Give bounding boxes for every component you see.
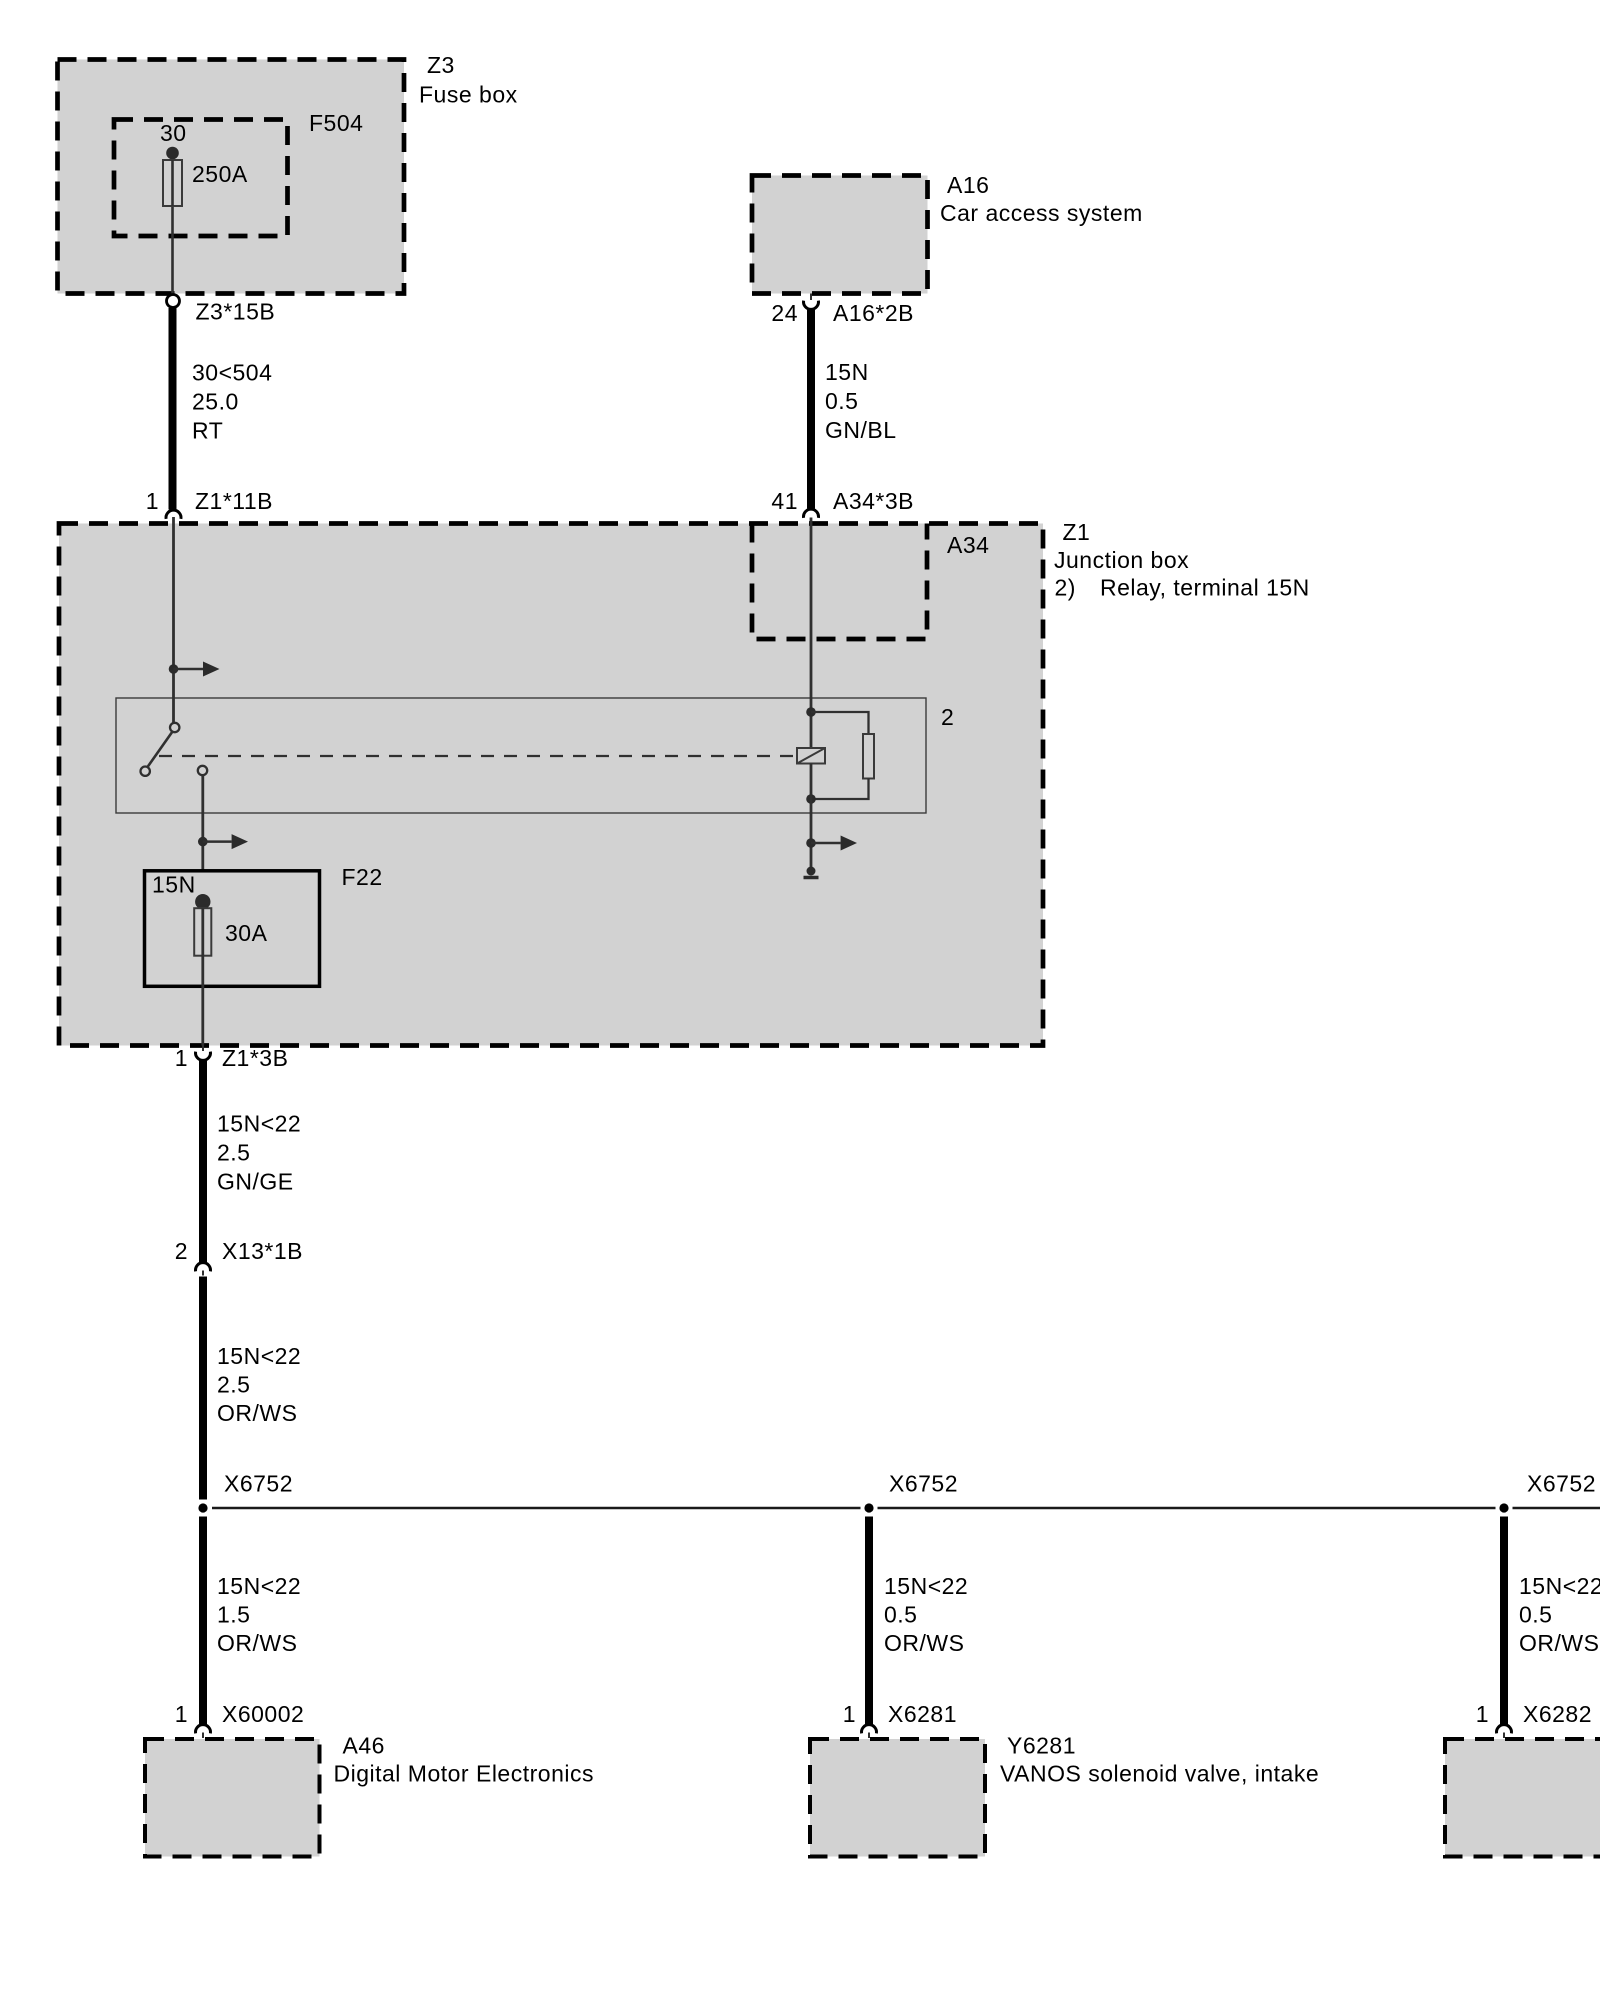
svg-text:Junction box: Junction box [1054, 547, 1189, 573]
svg-text:41: 41 [771, 488, 798, 514]
svg-text:X6281: X6281 [888, 1701, 957, 1727]
svg-text:VANOS solenoid valve, intake: VANOS solenoid valve, intake [1000, 1761, 1319, 1787]
svg-text:OR/WS: OR/WS [884, 1630, 964, 1656]
svg-text:F504: F504 [309, 110, 363, 136]
svg-text:1: 1 [146, 488, 159, 514]
svg-text:A16*2B: A16*2B [833, 300, 914, 326]
svg-text:30<504: 30<504 [192, 360, 272, 386]
svg-text:2: 2 [941, 704, 954, 730]
svg-text:X60002: X60002 [222, 1701, 304, 1727]
svg-text:15N: 15N [152, 872, 196, 898]
svg-text:0.5: 0.5 [884, 1602, 917, 1628]
svg-text:Y6281: Y6281 [1007, 1733, 1076, 1759]
svg-text:1: 1 [175, 1701, 188, 1727]
svg-text:Z3: Z3 [427, 52, 455, 78]
svg-text:1: 1 [1476, 1701, 1489, 1727]
svg-text:Z1*11B: Z1*11B [195, 488, 273, 514]
svg-text:2.5: 2.5 [217, 1140, 250, 1166]
svg-text:F22: F22 [342, 864, 383, 890]
svg-text:15N<22: 15N<22 [884, 1573, 968, 1599]
svg-text:24: 24 [771, 300, 798, 326]
svg-text:2: 2 [175, 1238, 188, 1264]
svg-text:Z3*15B: Z3*15B [196, 299, 276, 325]
svg-text:2.5: 2.5 [217, 1372, 250, 1398]
svg-text:15N<22: 15N<22 [217, 1343, 301, 1369]
svg-text:GN/BL: GN/BL [825, 417, 897, 443]
svg-text:X6282: X6282 [1523, 1701, 1592, 1727]
svg-text:X6752: X6752 [1527, 1471, 1596, 1497]
svg-text:X6752: X6752 [889, 1471, 958, 1497]
svg-text:OR/WS: OR/WS [217, 1630, 297, 1656]
svg-text:Car access system: Car access system [940, 200, 1143, 226]
svg-text:Digital Motor Electronics: Digital Motor Electronics [334, 1761, 594, 1787]
svg-text:1: 1 [175, 1045, 188, 1071]
svg-text:GN/GE: GN/GE [217, 1169, 294, 1195]
svg-text:1: 1 [843, 1701, 856, 1727]
svg-text:15N<22: 15N<22 [1519, 1573, 1600, 1599]
svg-text:250A: 250A [192, 161, 248, 187]
svg-text:RT: RT [192, 418, 223, 444]
svg-text:X6752: X6752 [224, 1471, 293, 1497]
svg-text:25.0: 25.0 [192, 389, 239, 415]
svg-text:15N: 15N [825, 359, 869, 385]
svg-text:30A: 30A [225, 920, 268, 946]
svg-text:A34: A34 [947, 532, 989, 558]
svg-text:0.5: 0.5 [1519, 1602, 1552, 1628]
svg-text:0.5: 0.5 [825, 388, 858, 414]
svg-text:1.5: 1.5 [217, 1602, 250, 1628]
svg-text:A34*3B: A34*3B [833, 488, 914, 514]
svg-text:Z1: Z1 [1063, 519, 1091, 545]
svg-text:15N<22: 15N<22 [217, 1111, 301, 1137]
svg-text:Fuse box: Fuse box [419, 82, 518, 108]
svg-text:A16: A16 [947, 172, 989, 198]
svg-text:A46: A46 [343, 1733, 385, 1759]
svg-text:OR/WS: OR/WS [1519, 1630, 1599, 1656]
svg-text:OR/WS: OR/WS [217, 1400, 297, 1426]
svg-text:Z1*3B: Z1*3B [222, 1045, 288, 1071]
svg-text:2): 2) [1055, 575, 1076, 601]
svg-text:15N<22: 15N<22 [217, 1573, 301, 1599]
svg-text:X13*1B: X13*1B [222, 1238, 303, 1264]
svg-text:30: 30 [160, 120, 187, 146]
svg-text:Relay, terminal 15N: Relay, terminal 15N [1100, 575, 1310, 601]
